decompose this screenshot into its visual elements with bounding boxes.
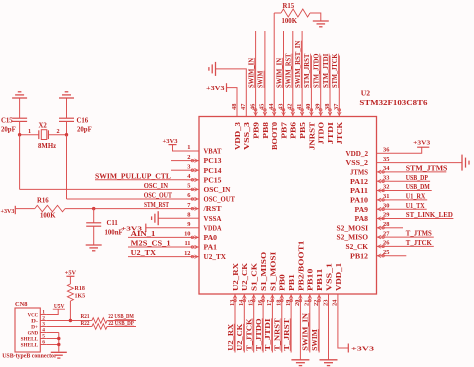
svg-text:STM_RST: STM_RST	[144, 202, 169, 209]
wire net SWIM_IN at pin 43	[283, 31, 285, 104]
svg-text:PA0: PA0	[204, 234, 218, 242]
wire OSC_IN vertical	[19, 135, 21, 190]
wire net STM_JRST at pin 40	[310, 56, 312, 104]
wire net STM_JTCK at pin 37	[338, 56, 340, 104]
svg-text:36: 36	[383, 147, 390, 154]
svg-text:24: 24	[332, 299, 339, 306]
U2 pin 34 stub	[377, 171, 390, 173]
wire net U2_CK at pin 14	[243, 307, 245, 353]
wire X2 pin1 to C15	[20, 134, 39, 136]
U2 pin 15 I/O arrow	[252, 299, 255, 302]
U2 pin 20 stub	[299, 294, 301, 307]
resistor R22	[92, 324, 107, 330]
U2 pin 16 stub	[262, 294, 264, 307]
svg-text:VBAT: VBAT	[204, 148, 222, 156]
U2 pin 14 stub	[243, 294, 245, 307]
svg-text:+3V3: +3V3	[351, 346, 375, 353]
svg-text:VDDA: VDDA	[204, 224, 222, 232]
ground below C11	[86, 244, 102, 246]
wire at pin 34 net STM_JTMS	[390, 171, 447, 173]
svg-text:JTDI: JTDI	[327, 122, 335, 145]
svg-text:9: 9	[187, 221, 190, 228]
wire net SWIM_RST at pin 42	[292, 31, 294, 104]
wire at pin 28	[390, 227, 404, 229]
resistor R16	[35, 205, 65, 211]
ground above C16	[59, 97, 74, 99]
U2 pin 46 stub	[255, 104, 257, 117]
power +3V3 for VDD_2	[417, 146, 429, 148]
wire R16 to pin 7	[65, 208, 186, 210]
wire net T_NRST at pin 18	[281, 307, 283, 353]
U2 pin 32 stub	[377, 190, 390, 192]
wire net T_JTDI at pin 17	[271, 307, 273, 353]
svg-text:U2_CK: U2_CK	[241, 262, 249, 291]
U2 pin 1 stub	[186, 150, 199, 152]
wire C16 top to ground	[66, 98, 68, 118]
wire ground rail vertical	[58, 333, 60, 352]
svg-text:S2_CK: S2_CK	[346, 243, 369, 251]
svg-text:PB9: PB9	[253, 121, 261, 138]
svg-text:VDD_3: VDD_3	[234, 121, 242, 150]
wire R22 to USB_DP	[107, 326, 136, 328]
wire at pin 26 net T_JTCK	[390, 245, 434, 247]
wire VDD_3 pin48 to +3V3	[227, 88, 237, 104]
svg-text:100K: 100K	[40, 212, 56, 219]
svg-text:PB0: PB0	[279, 274, 287, 291]
svg-text:USB_DP: USB_DP	[406, 175, 428, 182]
svg-text:3: 3	[187, 163, 190, 170]
svg-text:17: 17	[266, 299, 273, 306]
svg-text:U2_RX: U2_RX	[232, 263, 240, 291]
U2 pin 31 I/O arrow	[382, 199, 385, 202]
wire OSC_OUT vertical	[66, 135, 68, 199]
capacitor C16	[59, 117, 74, 119]
wire net T_JRST at pin 19	[290, 307, 292, 353]
power +5V for R18	[66, 275, 74, 277]
wire stub pin 3	[171, 169, 186, 171]
U2 pin 31 stub	[377, 199, 390, 201]
svg-text:+5V: +5V	[65, 269, 77, 276]
wire net SWIM_RST_IN at pin 41	[301, 31, 303, 104]
svg-text:PB11: PB11	[316, 268, 324, 291]
wire +3V3 to pin 1	[173, 145, 187, 151]
resistor R21	[92, 318, 107, 324]
wire at pin 33 net USB_DP	[390, 180, 431, 182]
ground at R15	[313, 20, 329, 22]
svg-text:VDD_1: VDD_1	[335, 262, 343, 291]
U2 pin 23 stub	[328, 294, 330, 307]
svg-text:U1_TX: U1_TX	[406, 203, 425, 210]
svg-text:T_JTCK: T_JTCK	[406, 240, 433, 247]
svg-text:R16: R16	[37, 197, 49, 204]
U2 pin 10 I/O arrow	[191, 236, 194, 239]
U2 pin 14 I/O arrow	[243, 299, 246, 302]
U2 pin 12 stub	[186, 256, 199, 258]
svg-text:CN8: CN8	[15, 301, 27, 308]
U2 pin 6 stub	[186, 198, 199, 200]
svg-text:PA1: PA1	[204, 244, 218, 252]
svg-text:11: 11	[184, 240, 190, 247]
ground for CN8	[51, 351, 67, 353]
U2 pin 27 stub	[377, 236, 390, 238]
svg-text:PB8: PB8	[262, 121, 270, 138]
U2 pin 12 I/O arrow	[191, 255, 194, 258]
svg-text:OSC_IN: OSC_IN	[144, 183, 168, 190]
svg-text:48: 48	[231, 104, 238, 110]
wire AIN_1 to pin 10	[128, 236, 186, 238]
wire net STM_JTDO at pin 39	[320, 56, 322, 104]
svg-text:+3V3: +3V3	[413, 140, 431, 147]
svg-text:13: 13	[229, 300, 236, 306]
wire pin 20 to ground	[299, 307, 301, 360]
svg-text:+3V3: +3V3	[1, 208, 16, 215]
junction shell rail 1	[57, 337, 60, 340]
ground at pin 20	[291, 359, 309, 361]
U2 pin 19 I/O arrow	[290, 299, 293, 302]
svg-text:/RST: /RST	[202, 205, 222, 213]
junction shell rail 2	[57, 343, 60, 346]
wire net T_JTCK at pin 15	[253, 307, 255, 353]
U2 pin 33 stub	[377, 180, 390, 182]
svg-text:VSS_3: VSS_3	[243, 121, 251, 150]
wire R21 to USB_DM	[107, 320, 136, 322]
U2 pin 13 stub	[234, 294, 236, 307]
connector CN8 body	[15, 308, 40, 352]
wire GND to ground rail	[46, 332, 59, 334]
wire X2 pin2 to C16	[48, 134, 66, 136]
svg-text:SHELL: SHELL	[21, 343, 39, 349]
U2 pin 25 I/O arrow	[382, 254, 385, 257]
wire net STM_JTDI at pin 38	[329, 56, 331, 104]
wire C16 bottom to node OSC_OUT	[66, 121, 68, 134]
U2 pin 15 stub	[253, 294, 255, 307]
svg-text:15: 15	[248, 300, 255, 306]
U2 pin 34 I/O arrow	[382, 171, 385, 174]
svg-text:1: 1	[187, 144, 190, 151]
power +3V3 for VDD_1	[347, 344, 349, 353]
resistor R15	[281, 9, 310, 17]
CN8 pin 6 stub	[40, 344, 46, 346]
U2 pin 37 I/O arrow	[338, 109, 341, 112]
svg-text:100nF: 100nF	[105, 230, 123, 237]
wire SHELL to ground rail	[46, 338, 59, 340]
svg-text:PA8: PA8	[355, 215, 369, 223]
U2 pin 41 I/O arrow	[301, 109, 304, 112]
wire net SWIM_IN at pin 21	[309, 307, 311, 353]
svg-text:R15: R15	[283, 3, 295, 10]
wire pin 24 to +3V3	[338, 307, 348, 348]
wire +3V3 to R16	[15, 208, 35, 210]
svg-text:PB1: PB1	[288, 274, 296, 291]
U2 pin 41 stub	[301, 104, 303, 117]
svg-text:20pF: 20pF	[1, 127, 16, 134]
wire at pin 25	[390, 255, 407, 257]
wire junction to C11	[93, 209, 95, 223]
power +3V3 for VDD_3	[226, 83, 228, 92]
svg-text:R18: R18	[75, 286, 85, 292]
wire BOOT0 pin44 up to R15	[273, 13, 275, 104]
U2 pin 22 stub	[318, 294, 320, 307]
U2 pin 44 stub	[273, 104, 275, 117]
svg-text:PA11: PA11	[350, 187, 369, 195]
wire at pin 32 net USB_DM	[390, 190, 432, 192]
U2 pin 2 I/O arrow	[191, 159, 194, 162]
svg-text:PB2/BOOT1: PB2/BOOT1	[297, 240, 305, 291]
svg-text:1: 1	[28, 128, 31, 135]
wire SHELL2 to ground rail	[46, 344, 59, 346]
wire net SWIM_IN at pin 46	[255, 31, 257, 104]
crystal X2	[41, 130, 47, 140]
junction R18/D-	[69, 319, 72, 322]
U2 pin 46 I/O arrow	[254, 109, 257, 112]
svg-text:PC14: PC14	[204, 167, 223, 175]
U2 pin 11 stub	[186, 246, 199, 248]
wire M2S_CS_1 to pin 11	[128, 246, 186, 248]
wire C15 top to ground	[19, 98, 21, 118]
svg-text:+3V3: +3V3	[206, 85, 225, 92]
svg-text:C16: C16	[77, 118, 89, 125]
ground for VSSA	[157, 211, 159, 225]
U2 pin 18 I/O arrow	[281, 299, 284, 302]
svg-text:PB12: PB12	[350, 252, 369, 260]
svg-text:STM_JTMS: STM_JTMS	[406, 166, 448, 173]
svg-text:VSSA: VSSA	[204, 215, 222, 223]
CN8 pin 3 stub	[40, 326, 46, 328]
U2 pin 37 stub	[338, 104, 340, 117]
svg-text:10: 10	[184, 231, 190, 238]
svg-text:S1_CK: S1_CK	[251, 262, 259, 291]
U2 pin 13 I/O arrow	[234, 299, 237, 302]
U2 pin 18 stub	[281, 294, 283, 307]
wire at pin 29 net ST_LINK_LED	[390, 218, 454, 220]
svg-text:X2: X2	[39, 123, 48, 130]
svg-text:PC15: PC15	[204, 176, 223, 184]
U2 pin 28 stub	[377, 227, 390, 229]
U2 pin 38 I/O arrow	[329, 109, 332, 112]
U2 pin 29 stub	[377, 218, 390, 220]
svg-text:19: 19	[285, 300, 292, 306]
svg-text:STM32F103C8T6: STM32F103C8T6	[359, 98, 427, 107]
svg-text:PA12: PA12	[350, 178, 369, 186]
wire +5V to R18	[69, 276, 71, 284]
wire R18 to D- net	[69, 301, 71, 321]
U2 pin 45 stub	[264, 104, 266, 117]
wire net T_JTDO at pin 16	[262, 307, 264, 353]
svg-text:8MHz: 8MHz	[38, 143, 56, 150]
svg-text:PB10: PB10	[307, 268, 315, 291]
wire net U2_RX at pin 13	[234, 307, 236, 353]
U2 pin 35 stub	[377, 162, 390, 164]
svg-text:PA10: PA10	[350, 197, 369, 205]
svg-text:JTMS: JTMS	[350, 169, 368, 177]
svg-text:20pF: 20pF	[77, 127, 92, 134]
wire D- to R21	[46, 320, 92, 322]
U2 pin 8 stub	[186, 217, 199, 219]
U2 pin 42 stub	[292, 104, 294, 117]
U2 pin 47 stub	[245, 104, 247, 117]
U2 pin 42 I/O arrow	[292, 109, 295, 112]
ground for VSS_3	[215, 62, 217, 76]
U2 pin 17 I/O arrow	[271, 299, 274, 302]
U2 pin 32 I/O arrow	[382, 189, 385, 192]
junction at C11	[92, 207, 95, 210]
wire +3V3 to pin 9	[146, 227, 186, 229]
svg-text:14: 14	[238, 299, 245, 306]
wire pin 8 to ground	[158, 217, 186, 219]
svg-text:S1_MOSI: S1_MOSI	[269, 251, 277, 291]
svg-text:PB6: PB6	[290, 121, 298, 138]
wire at pin 30 net U1_TX	[390, 208, 427, 210]
U2 pin 6 I/O arrow	[191, 198, 194, 201]
U2 pin 25 stub	[377, 255, 390, 257]
wire R15 right lead to ground	[310, 13, 321, 21]
svg-text:35: 35	[383, 156, 389, 163]
wire at pin 27 net T_JTMS	[390, 236, 434, 238]
svg-text:USB-typeB connector: USB-typeB connector	[2, 352, 57, 359]
svg-text:C15: C15	[1, 118, 13, 125]
U2 pin 17 stub	[271, 294, 273, 307]
svg-text:PC13: PC13	[204, 157, 223, 165]
svg-text:VSS_1: VSS_1	[325, 262, 333, 291]
wire R15 left lead	[274, 12, 281, 14]
U2 pin 2 stub	[186, 160, 199, 162]
svg-text:100K: 100K	[282, 18, 298, 25]
svg-text:OSC_OUT: OSC_OUT	[144, 193, 173, 200]
svg-text:JTDO: JTDO	[318, 121, 326, 144]
U2 pin 27 I/O arrow	[382, 236, 385, 239]
svg-text:U2_TX: U2_TX	[204, 253, 227, 261]
U2 pin 19 stub	[290, 294, 292, 307]
svg-text:S2_MISO: S2_MISO	[337, 234, 369, 242]
U2 pin 39 I/O arrow	[319, 109, 322, 112]
svg-text:S1_MISO: S1_MISO	[260, 251, 268, 291]
U2 pin 43 I/O arrow	[282, 109, 285, 112]
U2 pin 39 stub	[320, 104, 322, 117]
U2 pin 30 I/O arrow	[382, 208, 385, 211]
svg-text:R21: R21	[81, 314, 90, 320]
U2 pin 11 I/O arrow	[191, 246, 194, 249]
svg-text:8: 8	[187, 211, 190, 218]
wire pin 35 to ground	[390, 162, 463, 164]
svg-text:ST_LINK_LED: ST_LINK_LED	[406, 212, 453, 219]
U2 pin 21 I/O arrow	[309, 299, 312, 302]
ground for VSS_2	[461, 155, 463, 171]
U2 pin 33 I/O arrow	[382, 180, 385, 183]
svg-text:1K5: 1K5	[75, 294, 86, 300]
U2 pin 28 I/O arrow	[382, 227, 385, 230]
U2 pin 7 I/O arrow	[191, 207, 194, 210]
svg-text:+3V3: +3V3	[163, 138, 179, 145]
U2 pin 21 stub	[309, 294, 311, 307]
wire D+ to R22	[46, 326, 92, 328]
wire SWIM_PULLUP_CTL to pin 4	[95, 179, 186, 181]
wire at pin 31 net U1_RX	[390, 199, 428, 201]
U2 pin 10 stub	[186, 236, 199, 238]
U2 pin 5 I/O arrow	[191, 188, 194, 191]
wire pin 23 to ground	[328, 307, 330, 360]
CN8 pin 1 stub	[40, 314, 46, 316]
svg-text:JTCK: JTCK	[336, 121, 344, 144]
wire C15 bottom to node OSC_IN	[19, 121, 21, 134]
wire pin 36 to +3V3	[390, 147, 422, 153]
U2 pin 29 I/O arrow	[382, 217, 385, 220]
U2 pin 44 I/O arrow	[273, 109, 276, 112]
CN8 pin 5 stub	[40, 338, 46, 340]
U2 pin 20 I/O arrow	[299, 299, 302, 302]
svg-text:18: 18	[276, 300, 283, 306]
power +3V3 for R16	[14, 206, 16, 214]
U2 pin 36 stub	[377, 152, 390, 154]
U2 pin 4 stub	[186, 179, 199, 181]
junction node OSC_OUT	[65, 133, 68, 136]
svg-text:C11: C11	[107, 220, 119, 227]
svg-text:12: 12	[184, 250, 190, 257]
svg-text:2: 2	[187, 154, 190, 161]
svg-text:OSC_IN: OSC_IN	[204, 186, 231, 194]
U2 pin 30 stub	[377, 208, 390, 210]
power +3V3 for VDDA	[145, 224, 147, 232]
U2 pin 26 stub	[377, 245, 390, 247]
wire VSS_3 pin47 to ground	[216, 69, 247, 104]
svg-text:20: 20	[294, 300, 301, 306]
ground at pin 23	[320, 359, 338, 361]
wire C11 to ground	[93, 226, 95, 245]
U2 pin 3 stub	[186, 169, 199, 171]
ground above C15	[12, 97, 27, 99]
junction node OSC_IN	[18, 133, 21, 136]
svg-text:VSS_2: VSS_2	[346, 159, 369, 167]
U2 pin 22 I/O arrow	[318, 299, 321, 302]
svg-text:OSC_OUT: OSC_OUT	[204, 196, 236, 204]
wire U2_TX to pin 12	[128, 256, 186, 258]
svg-text:PA9: PA9	[355, 206, 369, 214]
wire net SWIM at pin 22	[318, 307, 320, 353]
power +3V3 for VBAT	[169, 144, 177, 146]
svg-text:T_JTMS: T_JTMS	[406, 231, 432, 238]
U2 pin 9 stub	[186, 227, 199, 229]
svg-text:21: 21	[304, 300, 311, 306]
svg-text:BOOT0: BOOT0	[271, 121, 279, 150]
U2 pin 16 I/O arrow	[262, 299, 265, 302]
svg-text:R22: R22	[81, 321, 90, 327]
svg-text:PB7: PB7	[280, 121, 288, 138]
svg-text:16: 16	[257, 299, 264, 306]
capacitor C15	[12, 117, 27, 119]
U2 pin 4 I/O arrow	[191, 179, 194, 182]
svg-text:VDD_2: VDD_2	[346, 150, 369, 158]
wire OSC_IN to pin 5	[20, 188, 186, 190]
U2 pin 40 stub	[310, 104, 312, 117]
IC U2 STM32F103C8T6 body	[199, 117, 377, 295]
U2 pin 48 stub	[236, 104, 238, 117]
wire OSC_OUT to pin 6	[67, 198, 187, 200]
svg-text:PB5: PB5	[299, 121, 307, 138]
CN8 pin 4 stub	[40, 332, 46, 334]
U2 pin 7 stub	[186, 208, 199, 210]
U2 pin 43 stub	[283, 104, 285, 117]
svg-text:USB_DM: USB_DM	[406, 184, 430, 191]
svg-text:47: 47	[240, 103, 247, 110]
resistor R18	[67, 284, 73, 301]
wire stub pin 2	[171, 160, 186, 162]
svg-text:5: 5	[187, 183, 190, 190]
svg-text:U2: U2	[361, 88, 370, 97]
U2 pin 40 I/O arrow	[310, 109, 313, 112]
capacitor C11	[86, 222, 101, 224]
U2 pin 5 stub	[186, 188, 199, 190]
svg-text:U1_RX: U1_RX	[406, 194, 426, 201]
svg-text:2: 2	[57, 128, 60, 135]
